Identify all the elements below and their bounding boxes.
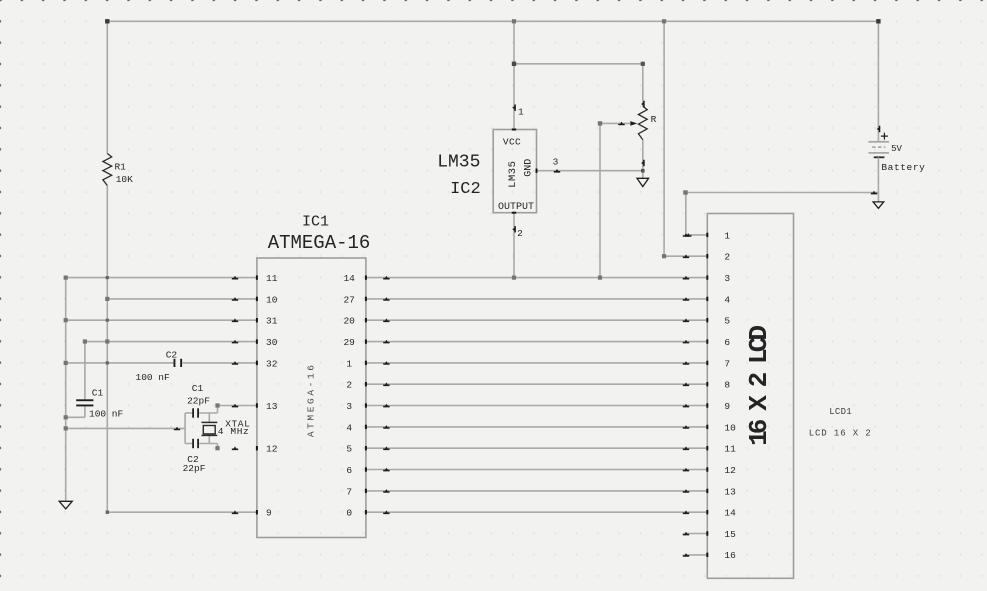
svg-text:11: 11 — [724, 444, 736, 455]
svg-text:27: 27 — [343, 294, 354, 305]
label C1 (100nF) — [92, 387, 104, 398]
svg-text:15: 15 — [724, 529, 736, 540]
op-amp/sensor IC2 LM35 box — [493, 130, 536, 213]
wire crystal ground row — [66, 427, 185, 429]
wire row pin30 — [85, 341, 257, 343]
pin 1 label LM35 — [518, 106, 524, 117]
svg-text:30: 30 — [266, 337, 278, 348]
svg-text:10: 10 — [724, 422, 736, 433]
ground symbol (left rail) — [59, 501, 72, 509]
svg-text:5V: 5V — [891, 144, 902, 154]
wire VCC rail / R1 leads (x=107) — [106, 21, 108, 512]
IC U1 ATMEGA-16 box — [257, 258, 366, 538]
svg-text:9: 9 — [266, 508, 272, 519]
wire LM35 output drop — [513, 213, 515, 278]
svg-text:12: 12 — [266, 444, 278, 455]
svg-text:0: 0 — [346, 508, 352, 519]
battery plus sign — [881, 133, 888, 140]
wire pin13 row — [218, 405, 257, 407]
svg-text:Battery: Battery — [881, 162, 925, 173]
svg-text:10K: 10K — [116, 174, 133, 185]
svg-text:1: 1 — [724, 230, 730, 241]
LCD pin numbers 1-16 — [724, 230, 736, 561]
pin 2 label LM35 — [517, 228, 523, 239]
LCD pin15 stub — [685, 533, 708, 535]
pin 3 label LM35 — [553, 157, 559, 168]
svg-text:4: 4 — [724, 294, 730, 305]
svg-text:100 nF: 100 nF — [89, 408, 124, 419]
label LCD 16 X 2 — [809, 429, 872, 439]
wire pot bottom lead — [642, 140, 644, 179]
label 22pF (C1) — [187, 395, 210, 406]
LCD1 box — [707, 214, 793, 579]
pin name OUTPUT — [498, 202, 534, 213]
svg-text:14: 14 — [343, 273, 355, 284]
label C1 (22pF) — [192, 383, 204, 394]
label C2 (100nF) — [166, 349, 178, 360]
pin name VCC — [503, 137, 521, 148]
svg-text:C1: C1 — [92, 387, 104, 398]
svg-text:22pF: 22pF — [187, 395, 210, 406]
svg-text:4 MHz: 4 MHz — [218, 426, 250, 437]
label 5V — [891, 144, 902, 154]
svg-text:7: 7 — [346, 486, 352, 497]
wire pot wiper horizontal — [600, 122, 630, 124]
capacitor C1 22pF leads — [185, 406, 217, 414]
wire row pin32 with C2 gap — [66, 362, 257, 364]
wire +5V top rail — [107, 20, 878, 22]
svg-text:12: 12 — [724, 465, 736, 476]
svg-text:1: 1 — [346, 358, 352, 369]
capacitor C2 22pF leads — [185, 444, 217, 449]
label 22pF (C2) — [183, 463, 206, 474]
ground symbol (battery) — [873, 202, 884, 208]
svg-text:LCD1: LCD1 — [829, 407, 852, 417]
wire row pin11 (GND) — [66, 277, 257, 279]
capacitor C1 100nF leads — [66, 342, 85, 418]
svg-text:13: 13 — [724, 486, 736, 497]
svg-text:GND: GND — [524, 159, 535, 177]
label IC2 — [450, 180, 481, 199]
label 16 X 2 LCD rotated — [744, 326, 774, 446]
battery B1 plates — [868, 142, 889, 158]
label Battery — [881, 162, 925, 173]
label 100 nF (C1) — [89, 408, 124, 419]
svg-text:22pF: 22pF — [183, 463, 206, 474]
svg-text:LCD 16 X 2: LCD 16 X 2 — [809, 429, 872, 439]
label R1 — [114, 162, 126, 173]
wire ground row to battery — [686, 192, 879, 194]
label C2 (22pF) — [187, 454, 199, 465]
label ATMEGA-16 — [268, 232, 371, 254]
wire row pin31 — [66, 319, 257, 321]
capacitor C1 100nF plates — [76, 399, 93, 406]
svg-text:5: 5 — [724, 316, 730, 327]
svg-text:16: 16 — [724, 550, 736, 561]
svg-text:R: R — [651, 114, 657, 125]
wire battery positive lead — [877, 21, 879, 142]
svg-text:20: 20 — [343, 316, 355, 327]
svg-text:16 X 2 LCD: 16 X 2 LCD — [744, 326, 774, 446]
svg-text:IC2: IC2 — [450, 180, 481, 199]
svg-text:OUTPUT: OUTPUT — [498, 202, 534, 213]
pin name GND vertical — [524, 159, 535, 177]
label 4 MHz — [218, 426, 250, 437]
svg-text:10: 10 — [266, 294, 278, 305]
ground symbol (pot) — [637, 178, 649, 186]
wire LCD pin1 feed — [686, 193, 708, 235]
capacitor C1 22pF plates — [192, 408, 199, 417]
svg-text:LM35: LM35 — [437, 153, 480, 173]
svg-text:100 nF: 100 nF — [136, 372, 171, 383]
svg-text:3: 3 — [724, 273, 730, 284]
wire LM35 VCC drop (x=514) — [513, 21, 515, 129]
svg-text:C1: C1 — [192, 383, 204, 394]
svg-text:2: 2 — [724, 252, 730, 263]
label 10K — [116, 174, 133, 185]
wire pot wiper vertical (to LCD pin3 net) — [599, 123, 601, 277]
crystal XTAL plates — [202, 422, 218, 435]
pot wiper arrowhead — [630, 121, 637, 126]
potentiometer R — [638, 106, 647, 140]
box edge pin ticks — [256, 129, 708, 558]
svg-text:2: 2 — [517, 228, 523, 239]
wire crystal left node — [184, 413, 186, 444]
label 100 nF (C2) — [136, 372, 171, 383]
wire pin9 row — [107, 511, 257, 513]
capacitor C2 100nF plates — [174, 359, 183, 367]
svg-text:LM35: LM35 — [507, 161, 519, 188]
svg-text:32: 32 — [266, 358, 278, 369]
label IC1 — [302, 213, 329, 230]
svg-text:R1: R1 — [114, 162, 126, 173]
resistor R1 — [103, 154, 112, 186]
wire left ground rail — [65, 278, 67, 502]
svg-text:14: 14 — [724, 508, 736, 519]
svg-text:9: 9 — [724, 401, 730, 412]
crystal XTAL body — [203, 426, 215, 434]
svg-text:3: 3 — [346, 401, 352, 412]
pin connection arrows — [174, 101, 881, 557]
capacitor C2 22pF plates — [192, 439, 199, 448]
wire data rows ATMEGA to LCD pins 4-14 — [366, 299, 707, 512]
svg-text:4: 4 — [346, 422, 352, 433]
wire y=64 to pot top — [514, 63, 643, 65]
svg-text:6: 6 — [346, 465, 352, 476]
svg-text:IC1: IC1 — [302, 213, 329, 230]
svg-text:5: 5 — [346, 444, 352, 455]
crystal XTAL stems — [208, 413, 210, 444]
wire row pin10 (VCC) — [107, 298, 257, 300]
wire +5V long vertical to LCD pin2 — [664, 21, 707, 256]
svg-text:8: 8 — [724, 380, 730, 391]
svg-text:ATMEGA-16: ATMEGA-16 — [306, 362, 317, 437]
svg-text:11: 11 — [266, 273, 278, 284]
svg-text:3: 3 — [553, 157, 559, 168]
svg-text:13: 13 — [266, 401, 278, 412]
svg-text:6: 6 — [724, 337, 730, 348]
svg-text:1: 1 — [518, 106, 524, 117]
LCD pin16 stub — [685, 554, 708, 556]
svg-text:29: 29 — [343, 337, 355, 348]
wire pot top lead — [642, 64, 644, 106]
svg-text:31: 31 — [266, 316, 278, 327]
label LCD1 — [829, 407, 852, 417]
svg-text:VCC: VCC — [503, 137, 521, 148]
label ATMEGA-16 rotated inside box — [306, 362, 317, 437]
wire row ATMEGA14-LCD3 (long) — [366, 277, 707, 279]
svg-text:C2: C2 — [166, 349, 178, 360]
ATMEGA left pin numbers — [266, 273, 278, 519]
pin name LM35 vertical — [507, 161, 519, 188]
label R (pot) — [651, 114, 657, 125]
label XTAL — [225, 419, 250, 430]
ATMEGA right pin numbers — [343, 273, 355, 519]
wire battery negative lead — [877, 157, 879, 202]
svg-text:7: 7 — [724, 358, 730, 369]
label LM35 — [437, 153, 480, 173]
wire LM35 pin3 row — [537, 170, 643, 172]
svg-text:2: 2 — [346, 380, 352, 391]
svg-text:ATMEGA-16: ATMEGA-16 — [268, 232, 371, 254]
